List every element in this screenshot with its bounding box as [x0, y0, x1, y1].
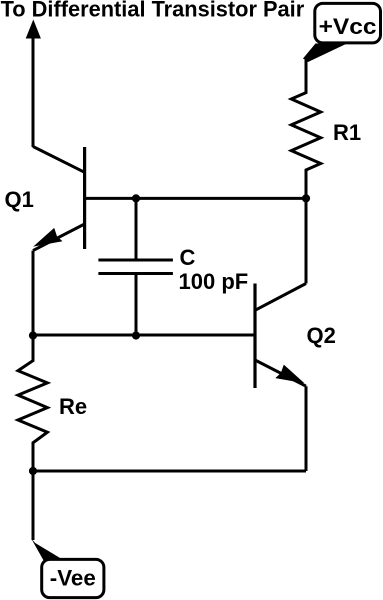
svg-text:To Differential Transistor Pai: To Differential Transistor Pair	[1, 0, 305, 22]
svg-text:Q1: Q1	[5, 187, 34, 212]
svg-text:+Vcc: +Vcc	[319, 14, 377, 39]
svg-text:-Vee: -Vee	[50, 566, 96, 591]
svg-text:Q2: Q2	[307, 323, 336, 348]
svg-text:Re: Re	[59, 394, 87, 419]
svg-text:C: C	[180, 245, 196, 270]
svg-text:R1: R1	[333, 120, 361, 145]
svg-text:100 pF: 100 pF	[179, 269, 249, 294]
